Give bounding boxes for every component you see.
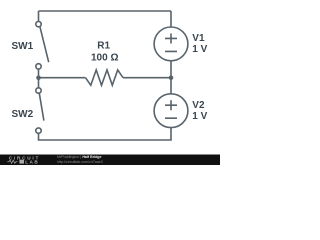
svg-text:http://circuitlab.com/c47aae3: http://circuitlab.com/c47aae3 (57, 160, 103, 164)
svg-text:SW1: SW1 (12, 41, 34, 52)
footer bar (0, 155, 220, 166)
svg-text:MrPuddington | Half Bridge: MrPuddington | Half Bridge (57, 155, 101, 159)
node junction left (36, 75, 41, 80)
svg-text:1 V: 1 V (192, 111, 207, 122)
wire right rail to V1 (170, 11, 172, 27)
svg-text:V1: V1 (192, 33, 205, 44)
svg-text:1 V: 1 V (192, 44, 207, 55)
wire top rail (39, 10, 172, 12)
svg-text:V2: V2 (192, 100, 205, 111)
wire V1 to node (170, 61, 172, 94)
switch SW2 (36, 88, 44, 134)
footer logo CircuitLab (7, 155, 40, 164)
svg-text:100 Ω: 100 Ω (91, 53, 118, 64)
resistor R1 (86, 70, 124, 85)
svg-text:R1: R1 (97, 40, 110, 51)
switch SW1 (36, 21, 49, 69)
voltage source V2 (154, 94, 188, 128)
wire left rail to SW1 (38, 11, 40, 21)
wire middle right segment (123, 77, 171, 79)
svg-text:LAB: LAB (25, 159, 39, 164)
wire SW1 to SW2 (38, 69, 40, 88)
voltage source V1 (154, 27, 188, 61)
wire SW2 to bottom rail (39, 128, 172, 140)
wire middle left segment (39, 77, 86, 79)
node junction right (169, 75, 174, 80)
svg-text:SW2: SW2 (12, 109, 34, 120)
